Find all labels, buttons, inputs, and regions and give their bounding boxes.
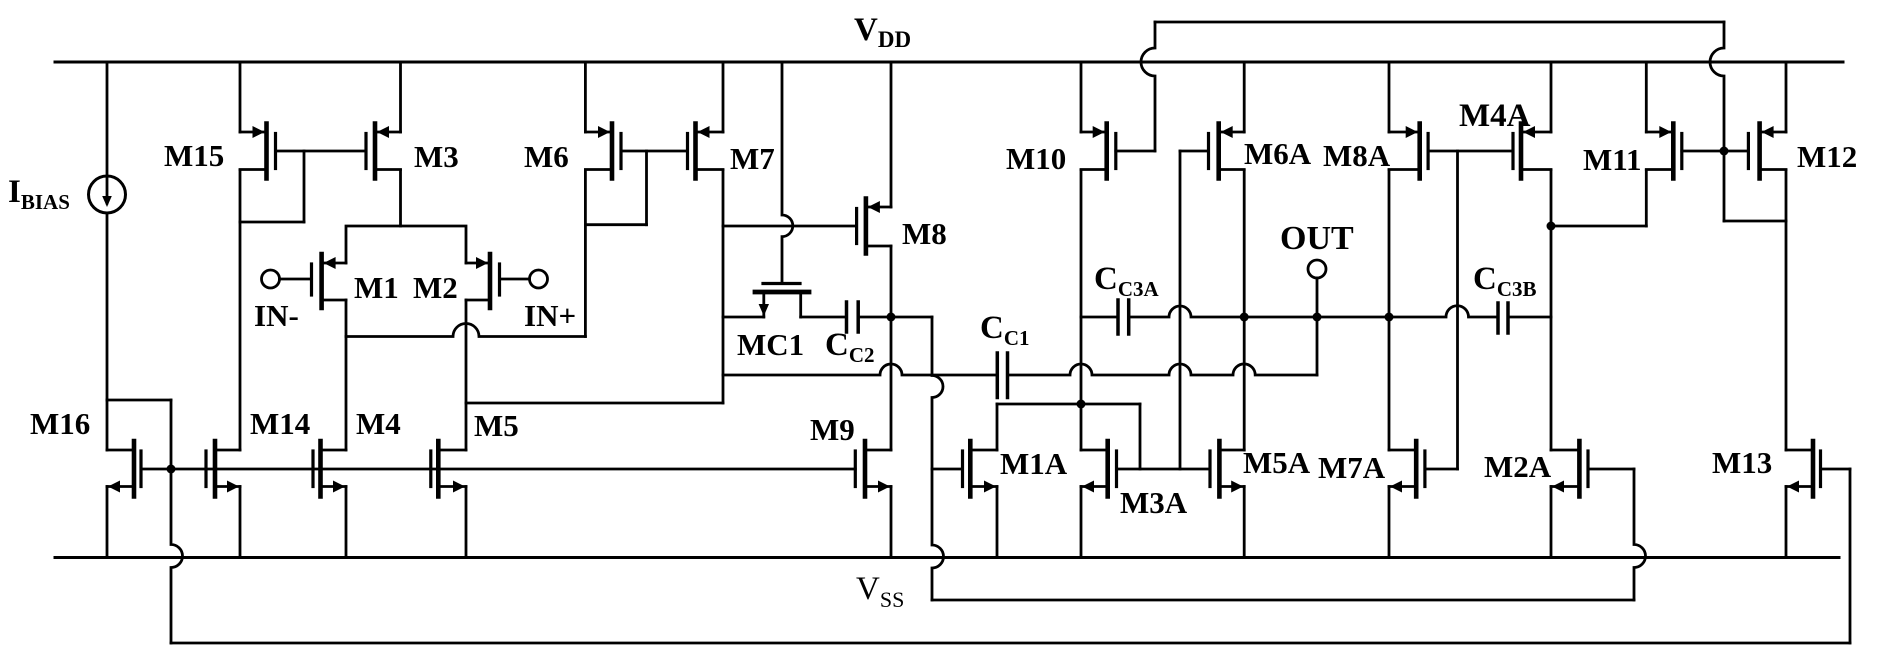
svg-text:M5A: M5A — [1243, 445, 1311, 480]
svg-text:M3: M3 — [414, 139, 459, 174]
svg-text:M4: M4 — [356, 406, 401, 441]
svg-text:M1: M1 — [354, 270, 399, 305]
svg-text:M6: M6 — [524, 139, 569, 174]
svg-text:M12: M12 — [1797, 139, 1857, 174]
svg-text:M11: M11 — [1583, 142, 1642, 177]
svg-text:M5: M5 — [474, 408, 519, 443]
svg-text:M6A: M6A — [1244, 136, 1312, 171]
svg-text:IN+: IN+ — [524, 298, 576, 333]
svg-text:M2: M2 — [413, 270, 458, 305]
svg-text:IN-: IN- — [254, 298, 299, 333]
svg-text:M2A: M2A — [1484, 449, 1552, 484]
svg-text:M1A: M1A — [1000, 446, 1068, 481]
svg-text:M9: M9 — [810, 412, 855, 447]
svg-text:M3A: M3A — [1120, 485, 1188, 520]
svg-text:OUT: OUT — [1280, 220, 1354, 257]
svg-text:M10: M10 — [1006, 141, 1066, 176]
svg-text:M8A: M8A — [1323, 138, 1391, 173]
svg-text:M15: M15 — [164, 138, 224, 173]
svg-text:M7: M7 — [730, 141, 775, 176]
svg-text:M7A: M7A — [1318, 450, 1386, 485]
svg-text:M13: M13 — [1712, 445, 1772, 480]
svg-text:M8: M8 — [902, 216, 947, 251]
svg-text:MC1: MC1 — [737, 327, 804, 362]
svg-text:M4A: M4A — [1459, 98, 1531, 134]
svg-text:M16: M16 — [30, 406, 90, 441]
svg-text:M14: M14 — [250, 406, 310, 441]
